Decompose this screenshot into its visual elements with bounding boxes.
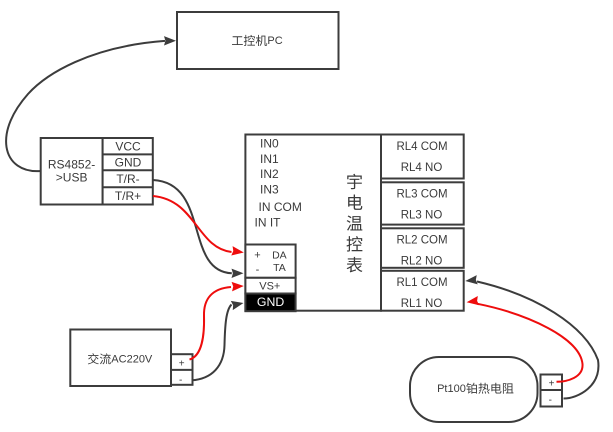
svg-text:-: -: [179, 375, 182, 386]
terminal block: + DA / - TA: [245, 245, 295, 278]
terminal block: AC + / -: [171, 354, 193, 386]
svg-text:RL1 COM: RL1 COM: [396, 277, 447, 289]
pin GND: [115, 156, 142, 170]
vertical label 宇电温控表: [347, 174, 362, 190]
svg-text:>USB: >USB: [56, 171, 88, 185]
svg-text:RL2 COM: RL2 COM: [396, 235, 447, 247]
svg-text:IN0: IN0: [260, 137, 279, 151]
wire: T/R- to TA terminal (black S-curve): [153, 180, 244, 278]
svg-text:IN1: IN1: [260, 152, 279, 166]
svg-text:RL4 COM: RL4 COM: [396, 141, 447, 153]
svg-text:-: -: [256, 264, 260, 276]
svg-text:Pt100: Pt100: [437, 383, 466, 395]
relay block RL2: [381, 228, 464, 267]
wire: RL1 NO to Pt100 plus (red): [466, 296, 583, 382]
box: industrial PC 工控机PC: [177, 12, 339, 69]
box: RS4852->USB adapter body: [41, 138, 103, 205]
svg-text:+: +: [179, 359, 185, 370]
relay block RL3: [381, 182, 464, 224]
terminal block: Pt100 + / -: [541, 375, 563, 407]
pin block of adapter: [103, 138, 153, 205]
svg-text:IN IT: IN IT: [255, 216, 282, 230]
box: temperature controller 宇电温控表: [245, 135, 381, 311]
relay block RL4: [381, 135, 464, 179]
wire: RL1 COM to Pt100 minus (black): [465, 275, 599, 398]
svg-text:RL2 NO: RL2 NO: [401, 256, 443, 268]
svg-text:IN3: IN3: [260, 182, 279, 196]
svg-text:+: +: [549, 379, 555, 390]
wire: AC+ to VS+ (red): [190, 281, 245, 359]
terminal: VS+: [245, 278, 295, 294]
svg-text:-: -: [549, 395, 552, 406]
svg-text:RL1 NO: RL1 NO: [401, 298, 443, 310]
wire: RS485 adapter to PC (black curve): [6, 36, 176, 171]
svg-text:VS+: VS+: [259, 280, 280, 292]
svg-text:RL3 COM: RL3 COM: [396, 189, 447, 201]
svg-text:TA: TA: [273, 262, 286, 274]
svg-text:+: +: [254, 249, 260, 261]
svg-text:PC: PC: [267, 35, 282, 47]
svg-text:RL3 NO: RL3 NO: [401, 210, 443, 222]
pin T/R-: [116, 172, 139, 186]
box: Pt100 sensor 铂热电阻 (rounded): [410, 357, 538, 422]
wire: AC- to GND (black): [192, 298, 245, 380]
wire: T/R+ to DA terminal (red S-curve): [153, 196, 244, 257]
relay block RL1: [381, 271, 464, 311]
svg-text:GND: GND: [115, 156, 142, 170]
svg-text:T/R+: T/R+: [115, 189, 141, 203]
svg-text:IN COM: IN COM: [259, 200, 302, 214]
svg-text:DA: DA: [272, 250, 287, 262]
svg-text:T/R-: T/R-: [116, 172, 139, 186]
svg-text:RS4852-: RS4852-: [48, 158, 95, 172]
svg-text:RL4 NO: RL4 NO: [401, 162, 443, 174]
svg-text:VCC: VCC: [115, 140, 141, 154]
pin T/R+: [115, 189, 141, 203]
pin VCC: [115, 140, 141, 154]
box: AC source 交流AC220V: [70, 330, 171, 387]
svg-text:IN2: IN2: [260, 167, 279, 181]
svg-text:GND: GND: [257, 295, 284, 309]
svg-text:AC220V: AC220V: [111, 354, 153, 366]
terminal: GND (black): [245, 294, 295, 312]
